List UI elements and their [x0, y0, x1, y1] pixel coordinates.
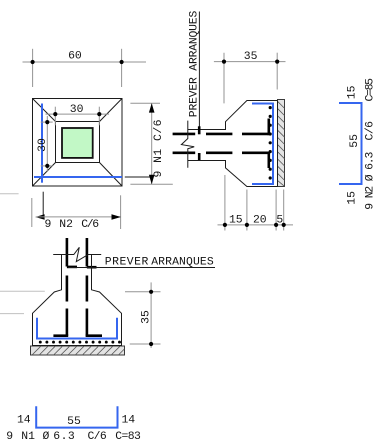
svg-text:Ø: Ø [43, 431, 50, 443]
svg-text:6.3: 6.3 [53, 431, 75, 443]
bar bent tail left (bottom view) [67, 266, 77, 269]
rebar N1 U-bar (blue, bottom view) [37, 318, 117, 339]
plan corner diagonal bottom-left [33, 163, 56, 187]
extension line 35-dim left [223, 53, 225, 104]
starter bar bottom (right view, dashed with hook) [173, 152, 269, 169]
svg-text:C=83: C=83 [115, 431, 141, 443]
svg-text:PREVER ARRANQUES: PREVER ARRANQUES [188, 11, 200, 118]
extension line 30-dim top left [54, 107, 56, 126]
bar bent tail right (bottom view) [87, 266, 97, 269]
plan corner diagonal bottom-right [100, 163, 123, 187]
svg-text:55: 55 [67, 416, 81, 428]
dim dot top [149, 290, 153, 294]
N1 bar shape (blue) [36, 406, 117, 427]
starter bar top (right view, dashed with hook) [173, 119, 269, 136]
svg-text:N2: N2 [59, 219, 73, 231]
extension line 30-dim left lower [41, 165, 53, 167]
plan corner diagonal top-left [33, 99, 56, 122]
N2 bars seen end-on (dots, bottom view) [39, 341, 121, 344]
footing outline top (right view) [188, 101, 278, 130]
svg-text:15: 15 [347, 191, 359, 205]
svg-text:15: 15 [347, 85, 359, 99]
extension line N1-dim top [130, 102, 160, 104]
extension line N1-dim bottom [130, 183, 172, 185]
dimension line N2 [36, 216, 121, 218]
svg-text:C/6: C/6 [364, 121, 375, 141]
break line symbol (bottom view) [53, 247, 101, 261]
svg-text:ARRANQUES: ARRANQUES [151, 256, 214, 268]
plan corner diagonal top-right [100, 99, 123, 122]
dim dot bottom [149, 342, 153, 346]
rebar N2 U-bar (blue, right view) [252, 104, 273, 185]
extension line N2-dim right [120, 195, 122, 229]
dim dot a [223, 223, 227, 227]
rebar N2 (blue horizontal in plan) [34, 176, 122, 178]
extension line 60-dim left [32, 49, 34, 87]
svg-text:N2: N2 [364, 186, 375, 199]
lean concrete hatch strip (bottom view) [31, 346, 125, 355]
construction line footing-top level far left [0, 290, 45, 292]
leader line to text (bottom view) [68, 267, 215, 269]
column (green square) [62, 128, 93, 158]
extension line N2-dim far left [31, 198, 33, 227]
footing outline bottom (right view) [188, 161, 278, 187]
extension line 15/20/5 at x224.9 [224, 175, 226, 231]
bar bent tail top (right view) [198, 126, 201, 134]
dim dot 30 left-upper [45, 120, 49, 124]
rebar N1 (blue vertical in plan) [41, 104, 43, 183]
svg-text:60: 60 [68, 51, 82, 63]
extension line 35-dim bottom (bottom view) [130, 343, 161, 345]
dim dot b [245, 223, 249, 227]
dimension line N1 [151, 103, 153, 184]
dim dot 60 left [30, 60, 34, 64]
extension line 30-dim left upper [41, 121, 53, 123]
svg-text:Ø 6.3: Ø 6.3 [364, 152, 375, 182]
dim dot 30 left-lower [45, 164, 49, 168]
leader from N2 bar level [125, 176, 151, 178]
plan outer square [33, 99, 123, 187]
svg-text:14: 14 [121, 415, 135, 427]
svg-text:9: 9 [364, 203, 375, 210]
arrowhead N1 bottom [149, 175, 155, 184]
dim dot 60 right [120, 60, 124, 64]
svg-text:35: 35 [141, 310, 153, 324]
starter bar right (bottom view, dashed with hook) [86, 238, 102, 336]
svg-text:35: 35 [244, 51, 258, 63]
plan inner square (pedestal top) [56, 122, 100, 163]
extension line 15/20/5 at x276.1 [275, 190, 277, 231]
arrowhead N2 left [35, 214, 44, 220]
extension line 15/20/5 at x246.9 [246, 190, 248, 231]
footing outline left (bottom view) [33, 255, 122, 346]
extension line 30-dim top right [98, 107, 100, 126]
footing right edge (right view) [277, 101, 279, 187]
leader line from N1 bar down [42, 192, 44, 218]
svg-text:9: 9 [45, 219, 52, 231]
dim dot 30 right [97, 112, 101, 116]
svg-text:20: 20 [253, 215, 267, 227]
starter bar left (bottom view, dashed with hook) [53, 238, 68, 336]
svg-text:55: 55 [349, 134, 361, 148]
extension line 15/20/5 at x283.7 [283, 190, 285, 231]
arrowhead N2 right [112, 214, 121, 220]
dimension line 35 (bottom view) [150, 282, 152, 348]
svg-text:9 N1 C/6: 9 N1 C/6 [153, 119, 165, 177]
N1 bars seen end-on (dots, right view) [269, 106, 272, 180]
arrowhead N1 top [149, 103, 155, 112]
svg-text:PREVER: PREVER [105, 256, 149, 268]
dimension line 15/20/5 [218, 224, 294, 226]
svg-text:C/6: C/6 [88, 431, 107, 443]
dim dot 35 left [222, 60, 226, 64]
svg-text:9: 9 [6, 431, 13, 443]
extension line 35-dim top (bottom view) [125, 291, 161, 293]
dimension line 30 left [46, 116, 48, 172]
lean concrete hatch strip (right view) [277, 100, 284, 187]
construction line left edge y194 [0, 193, 19, 195]
svg-text:30: 30 [37, 138, 49, 152]
svg-text:C/6: C/6 [81, 219, 99, 231]
dimension line 60 [23, 61, 147, 63]
dim dot 35 right [275, 60, 279, 64]
dim dot c [274, 223, 278, 227]
N2 bar shape (blue) [339, 103, 362, 184]
extension line 35-dim right [276, 53, 278, 90]
dimension line 30 top [46, 113, 110, 115]
break line symbol (right view) [181, 121, 194, 168]
extension line 60-dim right [121, 49, 123, 87]
svg-text:14: 14 [17, 415, 31, 427]
svg-text:15: 15 [229, 215, 243, 227]
svg-text:C=85: C=85 [364, 78, 375, 102]
bar bent tail bottom (right view) [198, 153, 201, 160]
svg-text:N1: N1 [21, 431, 35, 443]
dimension line 35 [214, 61, 286, 63]
dim dot 30 left [53, 112, 57, 116]
construction line footing-edge level far left [0, 313, 24, 315]
svg-text:5: 5 [276, 215, 283, 227]
leader line under vertical text [198, 12, 200, 127]
dim dot d [282, 223, 286, 227]
svg-text:30: 30 [70, 104, 84, 116]
